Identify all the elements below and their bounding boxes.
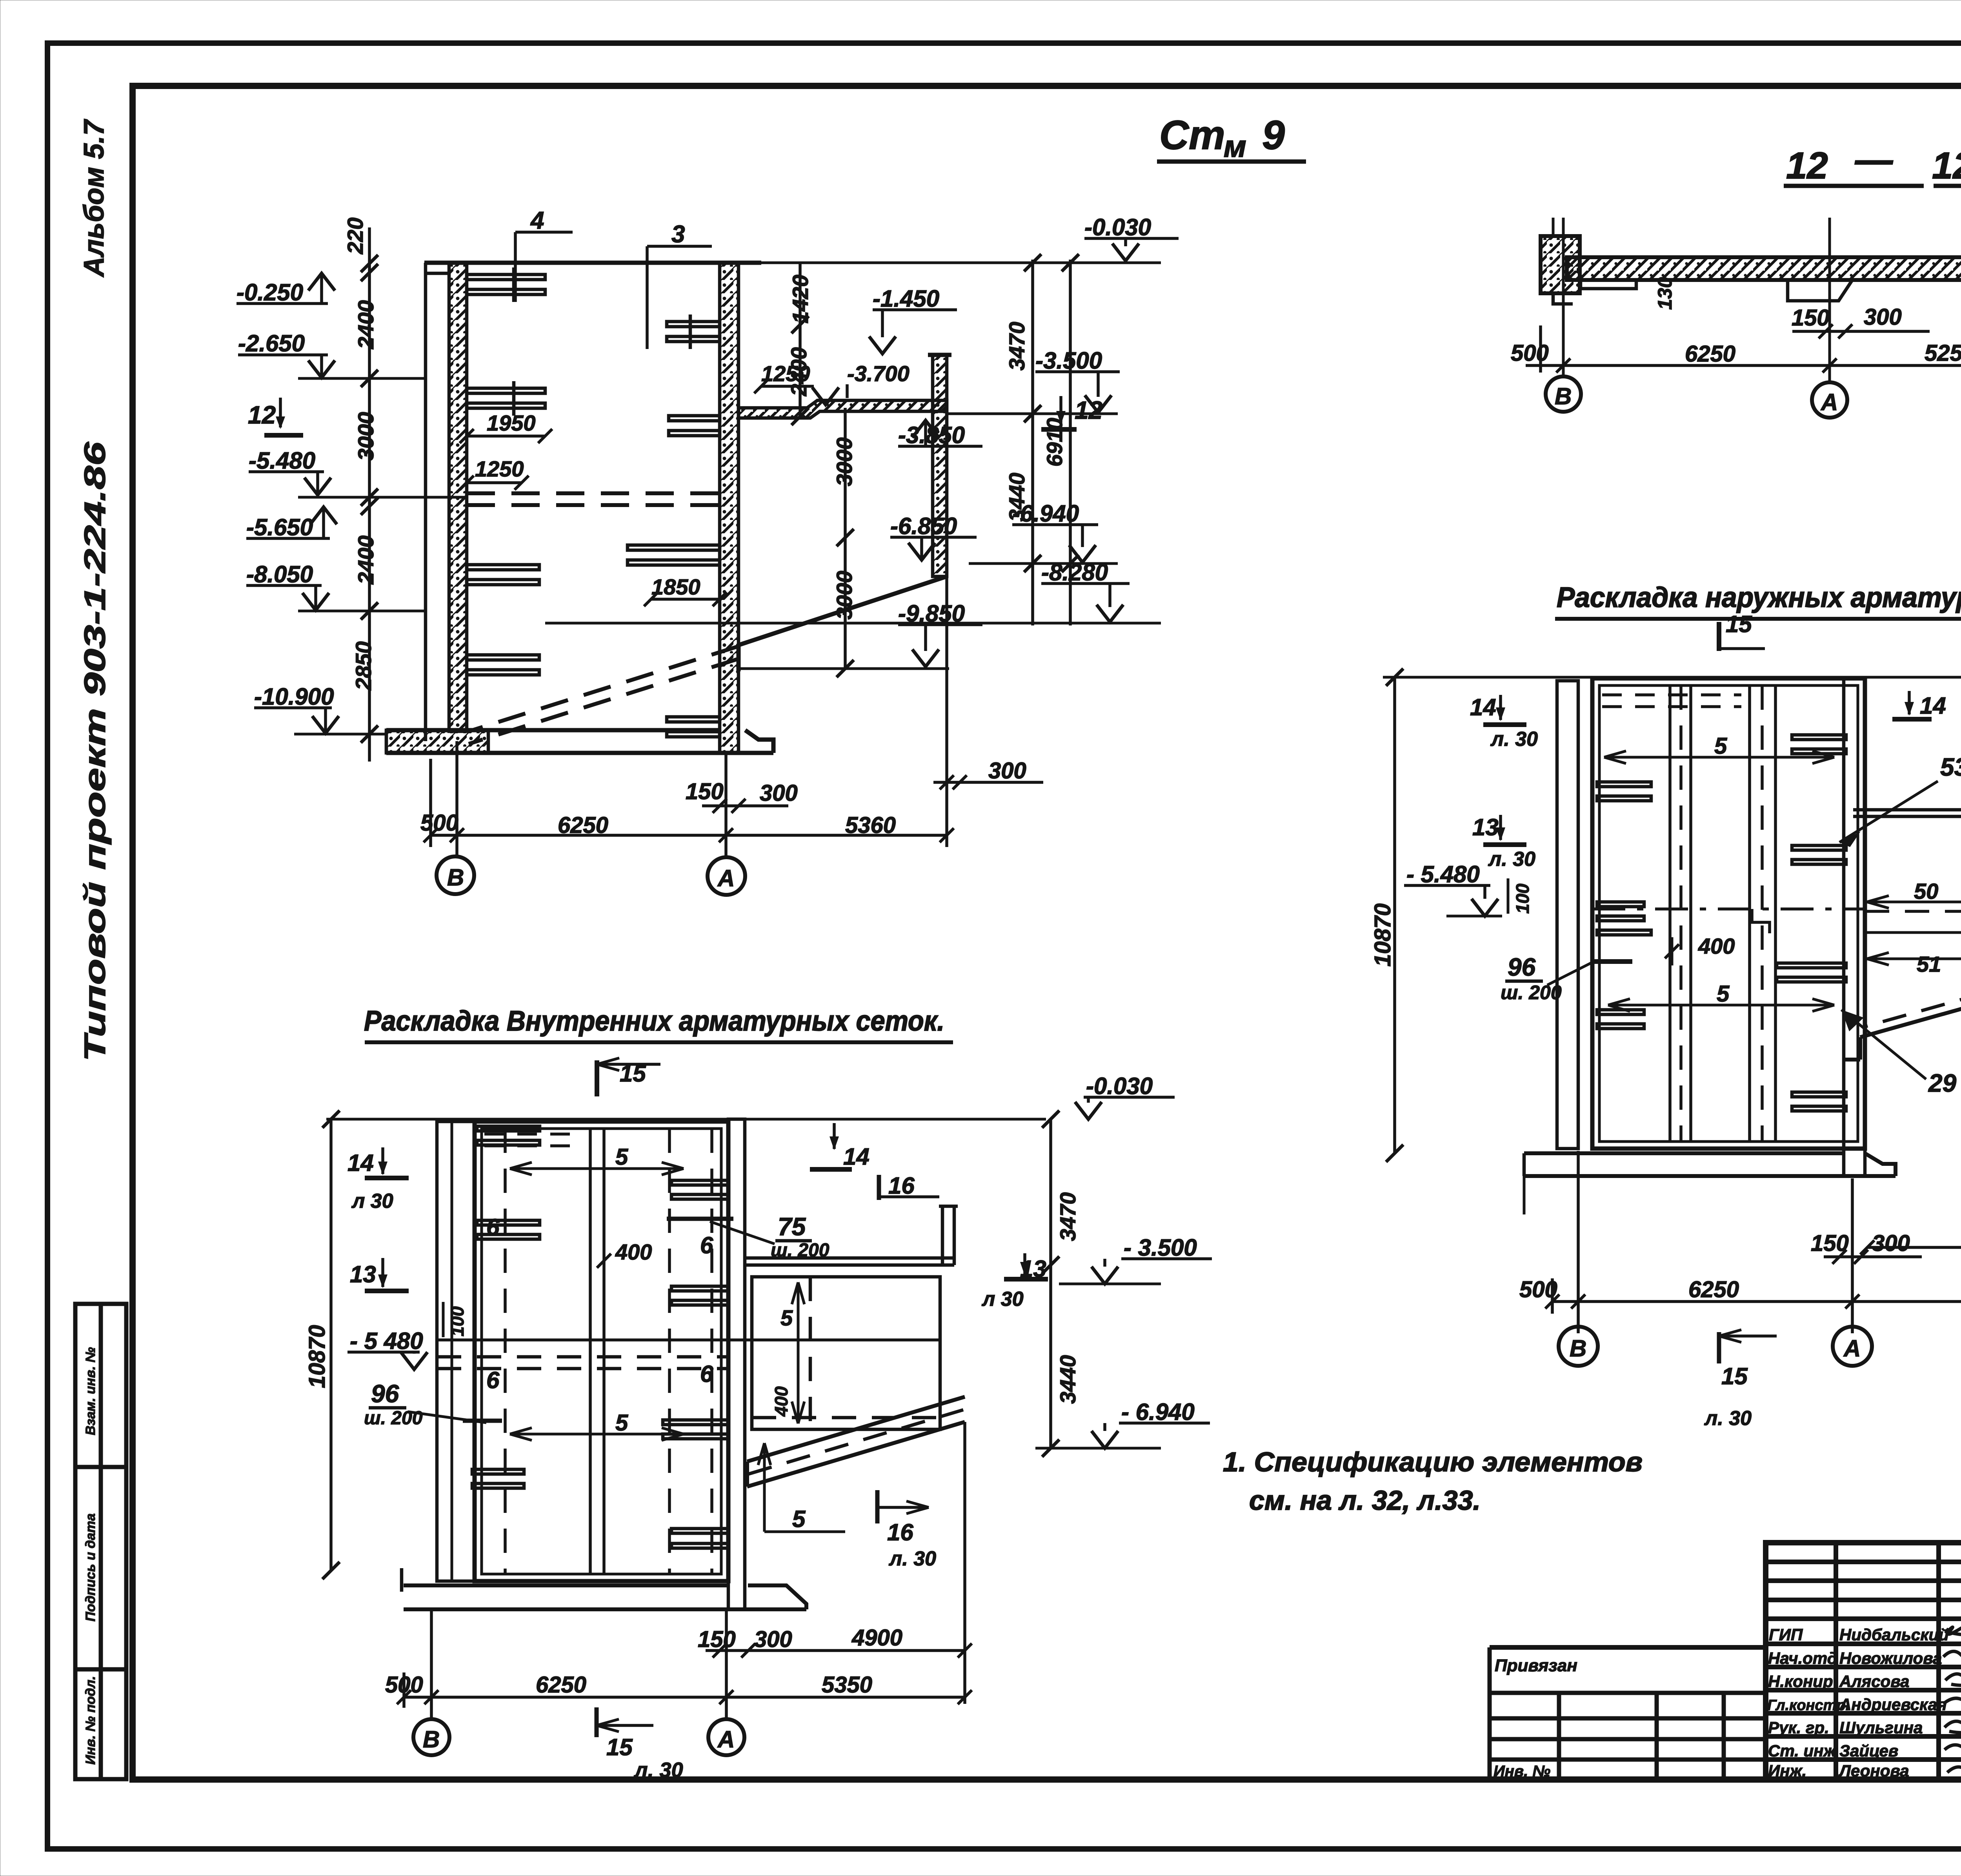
svg-text:Андриевская: Андриевская xyxy=(1839,1695,1947,1714)
svg-text:16: 16 xyxy=(888,1172,915,1199)
svg-text:6: 6 xyxy=(700,1232,713,1258)
svg-text:-6.940: -6.940 xyxy=(1012,500,1079,527)
svg-text:6910: 6910 xyxy=(1042,418,1067,467)
svg-text:2850: 2850 xyxy=(351,641,376,691)
svg-text:В: В xyxy=(1555,383,1572,409)
svg-text:14: 14 xyxy=(347,1150,374,1176)
svg-text:150: 150 xyxy=(686,779,724,804)
svg-text:Алясова: Алясова xyxy=(1839,1672,1909,1691)
svg-text:100: 100 xyxy=(447,1306,468,1336)
svg-text:В: В xyxy=(1570,1335,1586,1362)
svg-text:2400: 2400 xyxy=(786,347,811,396)
svg-text:л. 30: л. 30 xyxy=(1490,728,1538,751)
svg-text:5: 5 xyxy=(1714,733,1727,759)
svg-text:400: 400 xyxy=(615,1240,652,1264)
svg-text:5: 5 xyxy=(615,1144,628,1170)
svg-text:Подпись и дата: Подпись и дата xyxy=(83,1513,98,1622)
svg-text:2400: 2400 xyxy=(353,535,378,585)
svg-text:12: 12 xyxy=(1075,396,1102,424)
svg-text:л. 30: л. 30 xyxy=(633,1758,683,1782)
svg-text:-3.700: -3.700 xyxy=(847,361,910,386)
svg-text:м: м xyxy=(1224,129,1246,164)
svg-text:Ст. инж: Ст. инж xyxy=(1768,1741,1836,1760)
svg-text:50: 50 xyxy=(1914,879,1938,903)
svg-text:- 5.480: - 5.480 xyxy=(1406,861,1480,887)
svg-text:В: В xyxy=(447,864,464,891)
svg-text:51: 51 xyxy=(1917,952,1941,976)
svg-text:ГИП: ГИП xyxy=(1769,1625,1803,1644)
svg-text:Рук. гр.: Рук. гр. xyxy=(1768,1718,1829,1737)
svg-text:5: 5 xyxy=(780,1305,793,1330)
svg-text:5350: 5350 xyxy=(822,1672,872,1698)
svg-text:ш. 200: ш. 200 xyxy=(1501,982,1562,1003)
svg-text:1420: 1420 xyxy=(788,274,813,324)
svg-text:14: 14 xyxy=(1470,694,1496,720)
svg-text:-5.650: -5.650 xyxy=(246,514,313,540)
svg-text:ш. 200: ш. 200 xyxy=(364,1408,423,1429)
svg-text:Нач.отд: Нач.отд xyxy=(1768,1649,1837,1667)
svg-text:-0.030: -0.030 xyxy=(1084,214,1151,240)
svg-text:Инв. № подл.: Инв. № подл. xyxy=(83,1676,98,1765)
svg-text:4: 4 xyxy=(530,207,544,234)
svg-text:л 30: л 30 xyxy=(981,1288,1024,1311)
svg-text:15: 15 xyxy=(1726,611,1752,637)
svg-text:А: А xyxy=(717,865,735,891)
svg-text:3440: 3440 xyxy=(1055,1355,1080,1404)
svg-text:-8.280: -8.280 xyxy=(1041,559,1108,585)
svg-text:Н.конир: Н.конир xyxy=(1768,1672,1833,1691)
svg-text:3000: 3000 xyxy=(353,412,378,461)
svg-text:500: 500 xyxy=(1511,340,1549,366)
svg-text:Новожилова: Новожилова xyxy=(1839,1649,1942,1667)
svg-text:75: 75 xyxy=(778,1212,806,1241)
svg-text:400: 400 xyxy=(1698,934,1735,958)
svg-text:3: 3 xyxy=(671,221,685,248)
svg-text:400: 400 xyxy=(771,1386,791,1417)
svg-text:12: 12 xyxy=(1786,145,1828,187)
svg-text:-0.250: -0.250 xyxy=(236,279,303,305)
svg-text:-6.850: -6.850 xyxy=(890,513,957,539)
svg-text:1250: 1250 xyxy=(475,456,524,481)
svg-text:-2.650: -2.650 xyxy=(238,330,305,356)
svg-text:Нидбальский: Нидбальский xyxy=(1839,1625,1949,1644)
svg-text:А: А xyxy=(1843,1335,1861,1362)
svg-text:12: 12 xyxy=(248,401,276,429)
svg-text:53: 53 xyxy=(1940,753,1961,781)
svg-text:- 5 480: - 5 480 xyxy=(350,1328,423,1354)
svg-text:100: 100 xyxy=(1512,883,1533,914)
svg-text:1850: 1850 xyxy=(651,574,700,599)
svg-text:см. на л. 32, л.33.: см. на л. 32, л.33. xyxy=(1249,1485,1481,1516)
svg-text:Раскладка Внутренних арматур: Раскладка Внутренних арматурных сеток. xyxy=(364,1005,944,1037)
svg-text:9: 9 xyxy=(1262,113,1285,158)
svg-text:Привязан: Привязан xyxy=(1495,1656,1577,1675)
svg-text:Ст: Ст xyxy=(1159,113,1225,158)
svg-text:10870: 10870 xyxy=(304,1325,330,1388)
svg-text:10870: 10870 xyxy=(1370,903,1395,967)
svg-text:3000: 3000 xyxy=(832,571,857,620)
svg-text:Зайцев: Зайцев xyxy=(1839,1741,1898,1760)
svg-text:—: — xyxy=(1855,139,1893,181)
svg-text:96: 96 xyxy=(1508,953,1536,981)
svg-text:300: 300 xyxy=(760,780,798,806)
svg-text:6250: 6250 xyxy=(1685,341,1735,367)
svg-text:6: 6 xyxy=(486,1214,500,1240)
svg-text:А: А xyxy=(717,1726,735,1752)
svg-text:л. 30: л. 30 xyxy=(888,1547,936,1570)
svg-text:л 30: л 30 xyxy=(351,1190,393,1212)
svg-text:-10.900: -10.900 xyxy=(254,684,334,710)
svg-text:Инв. №: Инв. № xyxy=(1493,1763,1550,1780)
svg-text:5: 5 xyxy=(615,1410,628,1436)
svg-text:Взам. инв. №: Взам. инв. № xyxy=(83,1347,98,1435)
svg-text:-5.480: -5.480 xyxy=(249,447,315,474)
svg-text:15: 15 xyxy=(620,1060,646,1087)
svg-text:13: 13 xyxy=(1472,814,1499,840)
svg-text:15: 15 xyxy=(1721,1363,1748,1389)
svg-text:300: 300 xyxy=(1872,1231,1910,1256)
svg-text:29: 29 xyxy=(1928,1069,1957,1097)
svg-text:2400: 2400 xyxy=(353,300,378,349)
svg-text:300: 300 xyxy=(988,758,1026,783)
svg-text:13: 13 xyxy=(350,1261,376,1287)
svg-text:500: 500 xyxy=(420,810,458,836)
svg-text:- 3.500: - 3.500 xyxy=(1124,1234,1197,1261)
svg-text:3470: 3470 xyxy=(1004,322,1029,371)
svg-text:А: А xyxy=(1820,389,1838,415)
svg-text:12: 12 xyxy=(1932,145,1961,187)
svg-text:-3.500: -3.500 xyxy=(1035,347,1102,374)
svg-text:220: 220 xyxy=(343,218,367,254)
svg-text:-0.030: -0.030 xyxy=(1086,1073,1153,1099)
svg-text:5250: 5250 xyxy=(1925,340,1961,366)
svg-text:5: 5 xyxy=(1717,981,1730,1007)
svg-text:6: 6 xyxy=(486,1367,500,1393)
svg-text:130: 130 xyxy=(1654,277,1676,310)
svg-text:6250: 6250 xyxy=(1688,1277,1739,1302)
svg-text:15: 15 xyxy=(606,1734,633,1760)
svg-text:5: 5 xyxy=(792,1506,806,1532)
svg-text:300: 300 xyxy=(754,1627,792,1652)
svg-text:- 6.940: - 6.940 xyxy=(1121,1399,1195,1425)
svg-text:л. 30: л. 30 xyxy=(1704,1407,1752,1430)
svg-text:Альбом 5.7: Альбом 5.7 xyxy=(78,119,110,278)
svg-text:4900: 4900 xyxy=(851,1625,902,1651)
svg-text:1950: 1950 xyxy=(487,411,536,435)
svg-text:14: 14 xyxy=(1920,693,1946,719)
svg-text:1. Спецификацию элементов: 1. Спецификацию элементов xyxy=(1223,1447,1643,1477)
svg-text:Инж.: Инж. xyxy=(1768,1761,1806,1780)
svg-text:-8.050: -8.050 xyxy=(246,561,313,587)
svg-text:96: 96 xyxy=(371,1380,399,1408)
svg-text:150: 150 xyxy=(698,1627,736,1652)
svg-text:В: В xyxy=(423,1726,440,1752)
svg-text:Гл.констр.: Гл.констр. xyxy=(1767,1697,1850,1714)
svg-text:Шульгина: Шульгина xyxy=(1839,1718,1923,1737)
svg-text:6250: 6250 xyxy=(536,1672,586,1698)
svg-text:6: 6 xyxy=(700,1361,713,1387)
svg-text:л. 30: л. 30 xyxy=(1488,848,1535,871)
svg-text:3470: 3470 xyxy=(1055,1192,1080,1241)
svg-text:150: 150 xyxy=(1792,305,1830,331)
svg-text:Типовой проект 903-1-224.86: Типовой проект 903-1-224.86 xyxy=(78,442,112,1062)
svg-text:16: 16 xyxy=(887,1519,913,1545)
svg-text:14: 14 xyxy=(843,1143,870,1170)
svg-text:Леонова: Леонова xyxy=(1838,1761,1909,1780)
svg-text:3000: 3000 xyxy=(832,437,857,486)
svg-text:-1.450: -1.450 xyxy=(873,285,939,312)
svg-text:300: 300 xyxy=(1864,304,1902,330)
svg-text:Раскладка наружных арматурны: Раскладка наружных арматурных сеток. xyxy=(1557,582,1961,613)
